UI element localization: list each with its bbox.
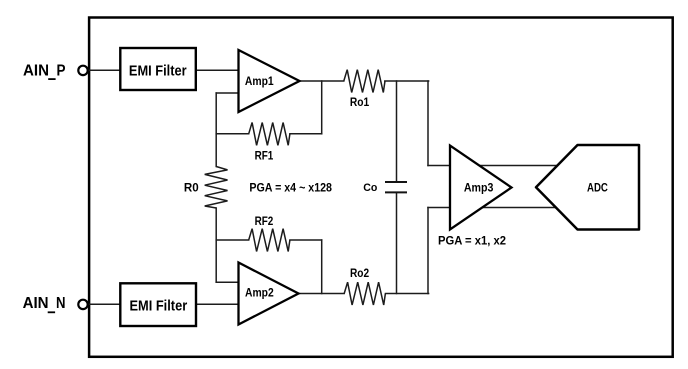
svg-text:R0: R0	[184, 180, 199, 194]
svg-text:N: N	[56, 295, 66, 312]
svg-text:EMI Filter: EMI Filter	[130, 299, 188, 315]
svg-text:RF2: RF2	[255, 214, 274, 228]
svg-text:P: P	[57, 62, 66, 79]
svg-text:ADC: ADC	[587, 181, 608, 195]
svg-text:Amp2: Amp2	[245, 286, 274, 300]
svg-text:PGA = x1, x2: PGA = x1, x2	[438, 233, 506, 247]
svg-text:AIN: AIN	[23, 62, 49, 79]
svg-text:RF1: RF1	[255, 149, 274, 163]
svg-text:PGA = x4 ~ x128: PGA = x4 ~ x128	[249, 180, 332, 194]
svg-text:Ro1: Ro1	[350, 95, 369, 109]
svg-text:Co: Co	[363, 182, 377, 194]
svg-text:Amp1: Amp1	[245, 74, 274, 88]
svg-text:Ro2: Ro2	[350, 266, 369, 280]
svg-text:EMI Filter: EMI Filter	[129, 64, 187, 80]
svg-text:Amp3: Amp3	[464, 181, 494, 195]
svg-text:AIN: AIN	[23, 295, 49, 312]
